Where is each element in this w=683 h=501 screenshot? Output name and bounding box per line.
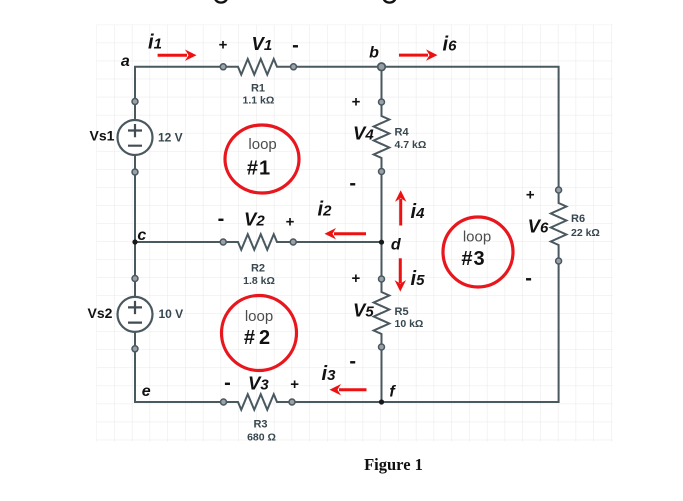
wire d to R5 <box>381 242 383 279</box>
resistor R1 <box>220 59 296 75</box>
svg-text:10 V: 10 V <box>159 307 184 321</box>
svg-text:680 Ω: 680 Ω <box>247 432 276 444</box>
svg-text:10 kΩ: 10 kΩ <box>395 318 424 330</box>
resistor R6 <box>551 187 567 264</box>
svg-text:Vs2: Vs2 <box>88 305 113 321</box>
wire R4 to node d <box>381 172 383 243</box>
svg-text:1.1 kΩ: 1.1 kΩ <box>243 95 275 107</box>
svg-text:Vs1: Vs1 <box>90 128 115 144</box>
svg-text:loop: loop <box>248 136 276 153</box>
resistor R4 <box>374 99 390 175</box>
node d <box>379 240 384 245</box>
svg-text:1.8 kΩ: 1.8 kΩ <box>243 275 275 287</box>
svg-text:+: + <box>290 376 299 393</box>
loop #1 marker <box>225 125 299 193</box>
svg-text:loop: loop <box>245 308 273 325</box>
wire c to Vs2 <box>134 242 136 297</box>
svg-text:-: - <box>349 350 356 372</box>
current arrow i4 <box>395 190 406 225</box>
svg-text:+: + <box>352 93 361 110</box>
svg-text:+: + <box>219 36 228 53</box>
svg-text:-: - <box>525 268 532 290</box>
svg-text:12 V: 12 V <box>158 131 183 145</box>
svg-text:-: - <box>349 172 356 194</box>
wire R2 to node d <box>293 241 381 243</box>
svg-text:#3: #3 <box>461 248 485 270</box>
svg-text:+: + <box>286 213 295 230</box>
svg-text:4.7 kΩ: 4.7 kΩ <box>395 139 427 151</box>
svg-text:+: + <box>526 187 535 204</box>
svg-text:V5: V5 <box>353 300 374 321</box>
svg-text:i3: i3 <box>322 363 337 385</box>
voltage source Vs2 <box>118 276 153 352</box>
svg-text:loop: loop <box>463 229 491 246</box>
svg-text:22 kΩ: 22 kΩ <box>571 227 600 239</box>
wire b to R6 top <box>382 67 559 190</box>
svg-text:c: c <box>137 227 146 244</box>
wire R5 to node f <box>381 347 383 402</box>
svg-text:R4: R4 <box>395 126 410 138</box>
current arrow i1 <box>158 50 197 61</box>
svg-text:R1: R1 <box>251 83 265 95</box>
loop #2 marker <box>222 296 297 371</box>
current arrow i3 <box>330 384 367 395</box>
svg-text:i6: i6 <box>443 34 458 56</box>
svg-text:+: + <box>352 270 361 287</box>
svg-text:i4: i4 <box>411 201 426 223</box>
resistor R3 <box>221 394 296 410</box>
svg-text:R3: R3 <box>253 419 267 431</box>
svg-text:b: b <box>369 45 379 62</box>
wire c to R2 <box>135 241 223 243</box>
svg-text:R2: R2 <box>251 263 265 275</box>
svg-text:-: - <box>218 208 225 230</box>
svg-text:d: d <box>391 237 402 254</box>
svg-text:R5: R5 <box>395 306 409 318</box>
svg-text:e: e <box>142 383 151 400</box>
wire R3 to node f <box>292 401 382 403</box>
voltage source Vs1 <box>118 99 153 176</box>
current arrow i6 <box>399 49 438 60</box>
wire R1 to node b <box>294 66 382 68</box>
node f <box>379 399 384 404</box>
loop #3 marker <box>443 217 513 287</box>
svg-text:# 2: # 2 <box>244 327 270 349</box>
current arrow i5 <box>395 258 406 291</box>
svg-text:V1: V1 <box>252 33 273 54</box>
svg-text:i2: i2 <box>318 199 333 221</box>
node c <box>132 239 137 244</box>
svg-text:a: a <box>121 53 130 70</box>
svg-text:V4: V4 <box>353 122 374 143</box>
svg-text:#1: #1 <box>247 158 271 180</box>
current arrow i2 <box>325 228 367 239</box>
wire Vs1 to node c <box>134 155 136 242</box>
svg-text:V6: V6 <box>528 216 549 237</box>
node b <box>378 63 386 71</box>
svg-text:i5: i5 <box>411 268 426 290</box>
svg-text:V3: V3 <box>248 373 269 394</box>
svg-text:Figure 1: Figure 1 <box>364 455 423 474</box>
svg-text:i1: i1 <box>148 32 162 54</box>
svg-text:-: - <box>224 372 231 394</box>
svg-text:R6: R6 <box>571 213 585 225</box>
wire node a to R1 and Vs1 <box>135 67 223 120</box>
resistor R5 <box>374 276 390 350</box>
wire b to R4 <box>381 67 383 102</box>
svg-text:V2: V2 <box>244 209 265 230</box>
wire f to R6 bottom <box>382 261 559 402</box>
svg-text:-: - <box>292 35 299 57</box>
resistor R2 <box>220 234 296 250</box>
wire Vs2 to node e and R3 <box>135 332 224 402</box>
